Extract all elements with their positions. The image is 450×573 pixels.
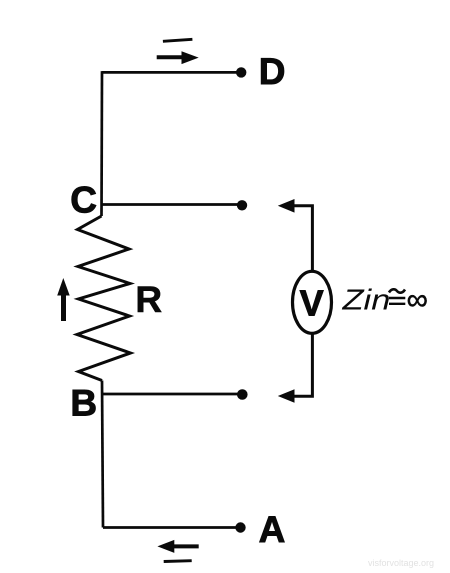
current arrow bottom (pointing left) — [157, 540, 198, 553]
svg-text:A: A — [259, 509, 286, 550]
current arrow top (pointing right) — [157, 51, 199, 64]
voltmeter bottom lead (elbow with arrow to node B) — [278, 335, 313, 403]
resistor R (zigzag) — [77, 216, 131, 381]
svg-text:D: D — [259, 51, 286, 92]
voltmeter top lead (elbow with arrow to node C) — [278, 199, 313, 270]
wire node C horizontal — [102, 203, 243, 206]
wire left vertical (resistor bottom through B to bottom corner) — [102, 381, 103, 528]
node A dot — [235, 522, 245, 532]
svg-text:R: R — [135, 279, 162, 320]
svg-text:Zin: Zin — [341, 283, 390, 315]
svg-text:B: B — [70, 383, 97, 424]
svg-text:∞: ∞ — [407, 283, 428, 316]
wire left vertical (top corner down to resistor top) — [100, 71, 103, 216]
wire bottom horizontal (corner to node A) — [103, 526, 240, 529]
node C dot — [237, 200, 247, 210]
wire top horizontal (corner to node D) — [102, 71, 241, 74]
current direction arrow (up, left of resistor) — [57, 278, 69, 321]
wire node B horizontal — [103, 393, 242, 396]
minus bar above top arrow — [163, 39, 193, 41]
node D dot — [236, 67, 246, 77]
minus bar below bottom arrow — [164, 559, 192, 563]
svg-text:visforvoltage.org: visforvoltage.org — [368, 558, 434, 568]
congruent symbol (approx-equal with tilde) — [389, 289, 405, 304]
svg-text:V: V — [300, 282, 324, 323]
node B dot — [237, 389, 248, 400]
svg-text:C: C — [70, 179, 97, 220]
voltmeter V (ellipse body) — [293, 271, 332, 333]
